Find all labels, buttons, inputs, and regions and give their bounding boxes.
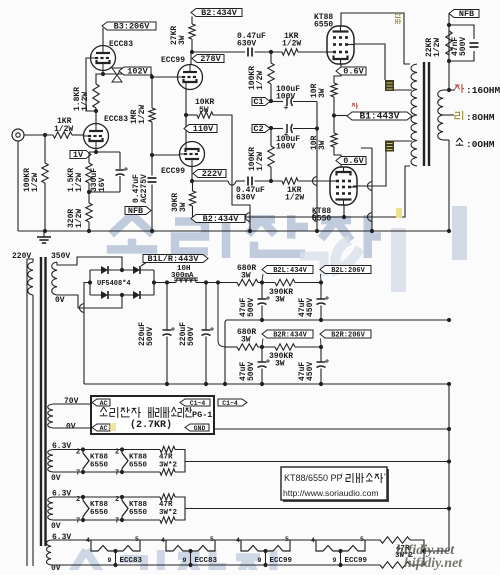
wire hop x372 y217 — [368, 213, 373, 222]
svg-text:7: 7 — [76, 518, 80, 526]
wire g2 tap upper — [394, 89, 412, 91]
svg-text:KT88: KT88 — [129, 501, 148, 509]
wire 1MR top — [151, 74, 153, 108]
wire C1 to cap — [270, 101, 283, 103]
wire HV top to bridge — [57, 257, 122, 270]
svg-text:9: 9 — [258, 557, 262, 564]
svg-text:2: 2 — [115, 496, 119, 504]
svg-text:ECC99: ECC99 — [161, 167, 185, 176]
svg-text:7: 7 — [76, 470, 80, 478]
wire beam to gnd — [371, 148, 373, 231]
flag 110V — [184, 125, 217, 133]
wire heater top rail b row1 — [175, 450, 185, 473]
svg-text:AC275V: AC275V — [140, 174, 149, 203]
svg-text:1/2W: 1/2W — [54, 125, 73, 134]
svg-text:9: 9 — [183, 557, 187, 564]
svg-text:4: 4 — [86, 537, 90, 544]
node grid lower — [269, 126, 273, 183]
svg-text:1V: 1V — [73, 150, 84, 160]
flag 102V — [119, 67, 151, 75]
capacitor 220uF 500V first — [163, 329, 172, 331]
svg-text:102V: 102V — [127, 67, 148, 77]
svg-text:7: 7 — [115, 518, 119, 526]
decor watermark2 — [300, 206, 467, 292]
wire heater top rail row3 — [51, 539, 380, 541]
flag B1L/R:443V — [143, 255, 208, 263]
node cathode sense — [332, 113, 336, 117]
wire 47uF4 — [320, 347, 322, 362]
wire hop x84 y308 — [80, 304, 85, 313]
node cathodes — [184, 113, 188, 117]
heater ECC99 4 — [316, 540, 341, 551]
svg-text:(2.7KR): (2.7KR) — [130, 419, 172, 431]
svg-text:500V: 500V — [187, 327, 196, 346]
wire V2 cathode — [95, 148, 97, 152]
svg-text:70V: 70V — [64, 397, 79, 406]
tube KT88 V6 lower — [330, 167, 357, 205]
wire primary top — [27, 259, 33, 566]
svg-text:3W*2: 3W*2 — [159, 509, 178, 517]
svg-text:GND: GND — [194, 425, 206, 432]
flag B2:434V upper — [191, 9, 242, 17]
wire 220uF2 top — [205, 283, 207, 330]
node cathode net — [87, 150, 98, 194]
resistor 680R 3W upper — [237, 279, 258, 285]
wire 8ohm tap — [443, 114, 454, 116]
svg-text:47R: 47R — [159, 501, 173, 509]
wire hop x372 y186 — [368, 182, 373, 191]
flag B2L:206V — [320, 266, 371, 274]
svg-text:1/2W: 1/2W — [282, 40, 301, 49]
wire 47uF4 bot — [320, 369, 322, 385]
wire C2 to cap — [270, 128, 283, 130]
wire plate V3 — [190, 52, 192, 65]
capacitor 0.47uF 630V lower — [247, 177, 249, 186]
wire b2l rail — [258, 282, 275, 284]
svg-text:500V: 500V — [146, 327, 155, 346]
wire 47R tap row3 — [424, 550, 449, 552]
svg-text:220V: 220V — [12, 252, 31, 261]
flag B2L:434V — [262, 266, 313, 274]
capacitor 100uF 100V lower — [286, 124, 288, 133]
resistor 100KR 1/2W grid leak — [42, 163, 48, 183]
flag C1-4 external — [218, 399, 247, 406]
svg-text:5W: 5W — [199, 106, 209, 115]
wire coupling lower b — [236, 180, 245, 182]
tube ECC83 V2 lower — [84, 124, 109, 149]
flag AC top — [92, 399, 110, 406]
transformer PT HV secondary — [52, 262, 57, 295]
wire hop x317 y217 — [313, 213, 318, 222]
wire 220uF1 top — [166, 283, 168, 330]
resistor 47R top row1 — [160, 446, 175, 452]
wire 1.5K legs — [88, 152, 90, 163]
svg-text:http://www.soriaudio.com: http://www.soriaudio.com — [283, 488, 379, 498]
svg-text:5: 5 — [285, 536, 289, 543]
wire gnd flag out — [214, 428, 449, 430]
wire 16ohm tap — [443, 89, 455, 91]
resistor 47R top row2 — [160, 494, 175, 500]
label yellow marks — [396, 208, 402, 218]
transformer OT primary — [411, 64, 417, 166]
resistor 47R bottom row2 — [160, 517, 175, 523]
wire primary bottom — [32, 295, 34, 566]
node y320 drop — [223, 382, 227, 386]
svg-text:1/2W: 1/2W — [31, 173, 40, 192]
svg-text:4: 4 — [236, 537, 240, 544]
node tap row2 — [447, 506, 451, 510]
wire V4 cathode — [185, 115, 187, 142]
svg-text:KT88: KT88 — [129, 454, 148, 462]
svg-text:3W: 3W — [241, 336, 251, 345]
resistor 1.8KR 1/2W — [93, 84, 99, 108]
flag NFB lower — [125, 207, 151, 215]
svg-text:KT88/6550 PP: KT88/6550 PP — [284, 473, 343, 483]
capacitor 0.47uF 630V upper — [247, 48, 249, 57]
node grid upper — [269, 50, 273, 103]
wire 47uF3 — [261, 347, 263, 362]
heater winding ECC row3 — [47, 540, 52, 565]
transformer OT secondary — [438, 90, 443, 140]
wire heater bottom rail row3 — [51, 564, 380, 566]
svg-text:450V: 450V — [306, 298, 315, 317]
wire ground bus — [18, 230, 449, 232]
svg-text:2: 2 — [76, 496, 80, 504]
wire 47uF1 — [261, 283, 263, 299]
svg-text:0V: 0V — [66, 423, 76, 432]
label red — [352, 104, 355, 107]
svg-text:3W: 3W — [318, 140, 327, 150]
node grid V3 — [150, 75, 154, 79]
svg-text:6550: 6550 — [90, 462, 109, 470]
resistor 1KR 1/2W upper — [282, 49, 298, 55]
transformer PT primary — [28, 262, 33, 295]
wire to ECC83 V2 grid — [72, 134, 84, 136]
node row3 — [422, 549, 426, 553]
heater ECC83 1 — [91, 540, 116, 551]
svg-text:6550: 6550 — [312, 215, 331, 224]
wire 10R upper bottom — [333, 97, 335, 116]
wire 100uF upper out — [293, 101, 317, 103]
svg-text:1/2W: 1/2W — [75, 209, 84, 228]
flag 1V — [70, 151, 91, 159]
svg-text:7: 7 — [115, 470, 119, 478]
svg-text:278V: 278V — [200, 54, 221, 64]
wire B+ rail — [154, 282, 176, 284]
label board korean — [100, 407, 106, 412]
svg-text:6550: 6550 — [129, 462, 148, 470]
wire 330uF legs — [119, 152, 121, 169]
wire V6 g2 — [353, 152, 386, 187]
decor stamp — [396, 543, 463, 571]
wire humdinger tap row1 — [185, 461, 449, 463]
wire 10R lower bottom — [334, 147, 341, 167]
resistor 22KR 1/2W — [446, 31, 452, 55]
node V1 cathode — [94, 72, 105, 113]
choke 10H 300mA — [176, 278, 196, 283]
wire 320R gnd — [88, 222, 90, 231]
wire flag tails b2 — [262, 274, 263, 281]
flag B2R:206V — [320, 330, 371, 338]
flag C1-4 internal — [180, 399, 210, 406]
svg-text:3W: 3W — [241, 272, 251, 281]
wire cap to gnd — [151, 185, 153, 232]
wire mid gnd rail — [226, 319, 449, 321]
wire 220uF1 bottom — [166, 337, 168, 385]
svg-text:': ' — [341, 472, 343, 482]
transformer OT core — [423, 62, 425, 166]
svg-text:16V: 16V — [98, 177, 107, 192]
flag 278V — [192, 55, 224, 63]
resistor 390KR 3W upper — [275, 279, 295, 285]
wire 47R join — [410, 540, 424, 565]
wire b2l out — [295, 282, 321, 284]
svg-text:ECC99: ECC99 — [270, 557, 293, 565]
capacitor 220uF 500V second — [202, 329, 211, 331]
wire flag 110V tail — [185, 115, 187, 125]
wire plate rail to OT bottom — [245, 166, 410, 217]
svg-text:2: 2 — [76, 449, 80, 457]
wire 100KR lower top — [270, 128, 272, 146]
svg-text:ECC99: ECC99 — [345, 557, 368, 565]
resistor 680R 3W lower — [237, 344, 258, 350]
svg-text:6550: 6550 — [314, 21, 333, 30]
bias board PG-1 — [91, 396, 214, 434]
svg-text:C2: C2 — [253, 124, 263, 134]
wire 30KR to flag — [192, 206, 194, 217]
wire coupling upper — [192, 51, 245, 53]
wire NFB rc top — [449, 25, 474, 39]
svg-text:UF5408*4: UF5408*4 — [97, 280, 131, 288]
svg-text:ECC83: ECC83 — [109, 40, 133, 49]
heater KT88 b row2 — [121, 497, 123, 501]
svg-text:5: 5 — [210, 536, 214, 543]
node plate V4 — [190, 179, 194, 183]
label yellow small — [110, 423, 116, 431]
wire bridge minus — [84, 283, 90, 385]
heater KT88 b row1 — [121, 450, 123, 454]
svg-text:0V: 0V — [51, 474, 61, 483]
transformer PT core — [40, 257, 42, 546]
decor watermark — [107, 215, 381, 258]
wire B+ rail 2 — [196, 282, 237, 284]
wire to ECC99 V4 grid — [152, 154, 179, 156]
wire humdinger tap row2 — [185, 508, 449, 510]
capacitor 47uF 500V upper — [258, 298, 267, 300]
wire to ECC99 V3 grid — [152, 76, 177, 78]
wire decouple common — [316, 102, 318, 232]
wire jack ground — [17, 141, 19, 231]
wire stopper stub — [361, 147, 372, 149]
svg-text:B2R:206V: B2R:206V — [331, 332, 365, 340]
heater winding KT88 row1 — [48, 450, 53, 473]
svg-text:9: 9 — [333, 557, 337, 564]
wire node to B1 flag — [334, 115, 347, 117]
resistor 47R b row3 — [380, 562, 410, 568]
wire bias top — [53, 403, 91, 405]
svg-text:1/2W: 1/2W — [256, 152, 265, 171]
resistor 100KR 1/2W lower — [268, 146, 274, 167]
capacitor 47uF 450V upper — [317, 298, 326, 300]
tube ECC99 V4 lower — [180, 142, 205, 167]
svg-text:4: 4 — [311, 537, 315, 544]
wire 330uF bot — [119, 176, 121, 192]
svg-text:C1: C1 — [253, 97, 263, 107]
flag AC bottom — [92, 424, 110, 431]
svg-text:4: 4 — [161, 537, 165, 544]
flag 222V — [193, 170, 226, 178]
svg-text:3W*2: 3W*2 — [159, 462, 178, 470]
svg-text:350V: 350V — [51, 252, 70, 261]
tap label box upper — [385, 80, 394, 91]
info box — [283, 469, 389, 502]
wire cathode rail — [89, 151, 120, 153]
svg-text:300mA: 300mA — [171, 272, 194, 280]
svg-text:3W: 3W — [318, 88, 327, 98]
node bridge — [120, 268, 156, 297]
wire rail 680R2 — [227, 346, 237, 348]
node plate V3 — [190, 50, 194, 54]
svg-text:1/2W: 1/2W — [433, 38, 442, 57]
wire 100KR upper bottom — [270, 84, 272, 101]
label olive top — [395, 14, 398, 16]
wire 27KR bottom — [191, 39, 193, 52]
wire 320R — [88, 192, 90, 203]
svg-text:100V: 100V — [276, 93, 295, 102]
wire cap to grid node upper — [255, 51, 283, 53]
svg-text:AC: AC — [100, 400, 108, 407]
resistor 1.5KR 1/2W — [86, 163, 92, 183]
svg-text:3W: 3W — [275, 296, 285, 305]
bridge rectifier UF5408x4 — [90, 266, 154, 299]
svg-text:B2L:434V: B2L:434V — [273, 267, 307, 275]
svg-text::0OHM: :0OHM — [466, 139, 495, 150]
wire 100KR lower bottom — [270, 167, 272, 181]
wire V5 g2 — [354, 44, 385, 80]
wire 0ohm tap — [443, 139, 449, 141]
svg-text:B2:434V: B2:434V — [201, 8, 238, 18]
svg-text:110V: 110V — [193, 124, 214, 134]
svg-text:B1L/R:443V: B1L/R:443V — [147, 254, 199, 264]
wire 100KR upper top — [270, 52, 272, 63]
wire 1.5K bot — [88, 183, 90, 192]
svg-text:B1:443V: B1:443V — [360, 111, 400, 122]
svg-text:3W: 3W — [275, 360, 285, 369]
svg-text:1/2W: 1/2W — [138, 105, 147, 124]
wire bias bottom — [53, 427, 91, 429]
svg-text:3W: 3W — [179, 202, 188, 212]
label 0OHM — [456, 138, 462, 142]
heater ECC99 3 — [241, 540, 266, 551]
wire B2R feed — [218, 283, 227, 348]
wire NFB rc bottom — [449, 51, 474, 61]
wire 47uF3 bot — [261, 369, 263, 385]
node B+ rail — [165, 280, 220, 284]
resistor 47R a row3 — [380, 537, 410, 543]
capacitor 0.47uF AC275V — [148, 177, 157, 179]
svg-text:C1~4: C1~4 — [190, 400, 206, 407]
wire NFB down — [448, 14, 450, 91]
wire 30KR — [192, 181, 194, 191]
resistor 390KR 3W lower — [275, 344, 295, 350]
flag B3:206V — [102, 22, 156, 30]
wire 10KR left — [186, 114, 197, 116]
node tap row1 — [447, 459, 451, 463]
capacitor 330uF 16V — [116, 169, 125, 171]
svg-text:KT88: KT88 — [90, 501, 109, 509]
wire hop x317 y181 — [313, 177, 318, 186]
wire HV bottom to bridge — [57, 295, 122, 308]
flag B2R:434V — [262, 330, 313, 338]
svg-text:500V: 500V — [247, 362, 256, 381]
svg-text:630V: 630V — [237, 40, 256, 49]
wire psu ground bus — [84, 383, 449, 385]
resistor 27KR 3W — [189, 24, 195, 39]
capacitor 47uF 450V lower — [317, 361, 326, 363]
wire 220uF2 bottom — [205, 337, 207, 385]
svg-text:ECC99: ECC99 — [161, 56, 185, 65]
ground symbol — [43, 231, 45, 237]
resistor 1MR 1/2W — [149, 108, 155, 122]
node grid V4 — [150, 153, 154, 157]
svg-text:630V: 630V — [236, 194, 255, 203]
svg-text:ECC83: ECC83 — [195, 557, 218, 565]
svg-text:100V: 100V — [276, 143, 295, 152]
wire gnd vertical lower — [448, 384, 450, 551]
svg-text::8OHM: :8OHM — [466, 112, 495, 123]
wire cap to grid node lower — [255, 180, 283, 182]
wire b2r out — [295, 346, 321, 348]
wire hop at y217 — [246, 213, 251, 222]
node mid gnd — [319, 318, 451, 322]
label 16OHM — [455, 85, 460, 89]
resistor 47R bottom row1 — [160, 469, 175, 475]
symbol phase marker — [112, 68, 122, 82]
wire V1 grid loop — [86, 58, 96, 111]
svg-text:222V: 222V — [202, 169, 223, 179]
node ground bus — [43, 229, 451, 233]
svg-text:500V: 500V — [459, 37, 468, 56]
wire 100KR top — [44, 135, 46, 163]
wire y320 rail drop — [225, 320, 226, 385]
svg-text:B2:434V: B2:434V — [203, 214, 240, 224]
node NFB — [447, 23, 451, 92]
svg-text:6550: 6550 — [129, 509, 148, 517]
wire g2 tap lower — [394, 140, 412, 142]
node b2 nodes — [260, 280, 323, 349]
transformer bias winding — [48, 404, 53, 428]
capacitor 100uF 100V upper — [286, 97, 288, 106]
wire hop over x232 — [228, 181, 236, 185]
tube KT88 V5 upper — [327, 26, 354, 64]
tap label box lower — [385, 141, 394, 152]
wire 100KR bottom — [44, 183, 46, 231]
flag C1 — [252, 98, 270, 106]
wire heater bottom rail row2 — [53, 519, 160, 521]
svg-text:KT88: KT88 — [90, 454, 109, 462]
svg-text:0V: 0V — [55, 296, 65, 305]
node input — [43, 133, 47, 137]
svg-text:0V: 0V — [51, 522, 61, 531]
svg-text:C1~4: C1~4 — [222, 400, 238, 407]
node V6 plate — [342, 215, 346, 219]
flag B1:443V — [347, 112, 412, 120]
wire coupling lower — [192, 180, 228, 182]
label 8OHM — [455, 112, 460, 118]
flag B2:434V lower — [191, 215, 245, 223]
svg-text:1/2W: 1/2W — [256, 71, 265, 90]
capacitor 47nF 500V — [470, 42, 479, 44]
